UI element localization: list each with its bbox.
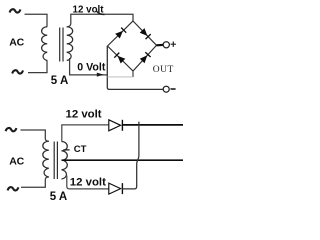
svg-text:AC: AC — [9, 36, 24, 48]
wire: AC bottom to primary — [28, 60, 47, 72]
svg-text:12 volt: 12 volt — [70, 176, 106, 188]
wire: AC top to primary — [21, 130, 49, 141]
wire: AC bottom to primary — [21, 177, 49, 187]
wire: D5 cathode to + rail (right edge) — [122, 124, 183, 126]
arrowhead on 0 Volt wire — [97, 73, 104, 77]
faint wire: left drop to bottom node stub — [107, 76, 133, 78]
transformer T1 primary winding — [42, 27, 48, 61]
AC source tilde (top) — [10, 9, 21, 12]
svg-text:5 A: 5 A — [51, 75, 68, 87]
wire: AC top to primary — [25, 14, 48, 27]
- output terminal — [163, 86, 169, 92]
transformer T2 secondary winding — [62, 142, 68, 179]
current arrow tick on 12 volt wire — [96, 11, 104, 15]
wire: secondary top to diode D5 — [62, 125, 109, 142]
AC source tilde (bottom) — [12, 70, 23, 73]
diode D2 (upper-right, points to + node) — [140, 28, 148, 36]
svg-text:OUT: OUT — [153, 65, 174, 75]
transformer T2 primary winding — [43, 141, 49, 177]
+ output terminal — [163, 42, 169, 48]
diode D5 — [109, 120, 121, 131]
transformer T1 core — [60, 28, 63, 62]
center tap stub tick — [63, 149, 69, 151]
svg-text:AC: AC — [9, 155, 24, 167]
wire: join D5/D6 cathodes, crossing CT rail with jog — [122, 122, 138, 189]
diode D1 (upper-left, points to top node) — [115, 31, 123, 39]
AC source tilde (top) — [6, 128, 17, 131]
svg-text:12 volt: 12 volt — [66, 109, 102, 121]
wire: secondary top to bridge (12 volt line) — [67, 14, 133, 27]
transformer T2 core — [54, 142, 57, 180]
wire: center tap rail to right edge — [62, 159, 184, 161]
svg-text:5 A: 5 A — [50, 191, 67, 203]
bridge diamond wires — [108, 21, 157, 71]
AC source tilde (bottom) — [8, 187, 19, 190]
wire stub: bottom node down — [132, 71, 134, 77]
svg-text:0 Volt: 0 Volt — [77, 61, 106, 73]
svg-text:CT: CT — [74, 144, 87, 155]
wire: left node down to negative rail — [107, 46, 163, 89]
wire: secondary bottom (0 Volt line) — [70, 58, 108, 75]
wire: secondary bottom to diode D6 — [67, 176, 109, 189]
diode D6 — [109, 183, 121, 194]
diode D3 (lower-left, points to left node) — [118, 56, 126, 64]
transformer T1 secondary winding — [67, 27, 73, 61]
diode D4 (lower-right, points to + node) — [140, 55, 148, 63]
wire: right node to + terminal — [157, 44, 164, 47]
